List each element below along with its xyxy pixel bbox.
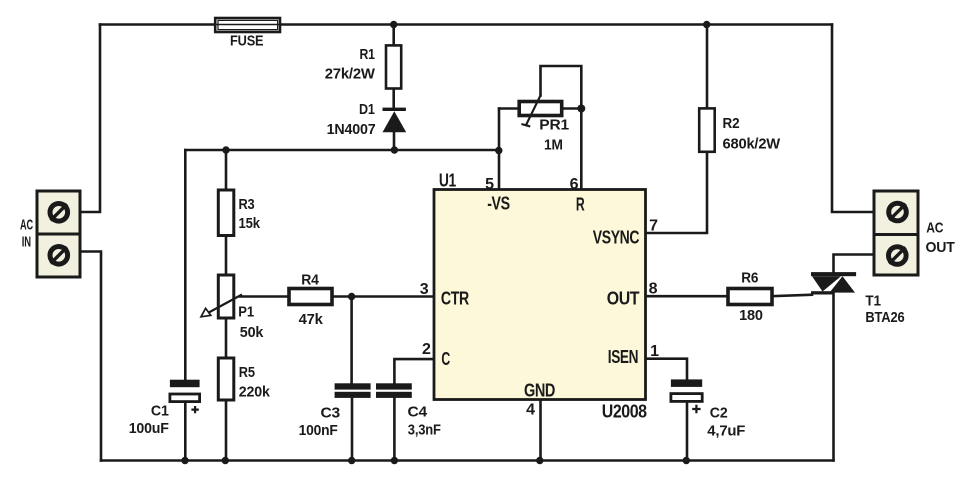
svg-text:C4: C4	[408, 404, 428, 421]
svg-text:4,7uF: 4,7uF	[707, 422, 745, 439]
resistor R1	[386, 45, 401, 88]
wire IC pin 6	[580, 109, 583, 190]
svg-text:4: 4	[526, 402, 535, 419]
svg-text:U1: U1	[439, 171, 456, 191]
resistor R4	[289, 289, 332, 305]
wire C2 to bottom rail	[686, 402, 689, 461]
svg-text:7: 7	[649, 218, 658, 235]
svg-text:GND: GND	[524, 380, 555, 400]
wire R1 to D1	[392, 89, 395, 109]
wire top rail to AC OUT top terminal	[832, 25, 874, 213]
resistor R5	[218, 358, 234, 400]
svg-text:C3: C3	[321, 405, 341, 422]
wire top rail	[100, 23, 832, 26]
svg-text:D1: D1	[359, 101, 375, 118]
svg-text:OUT: OUT	[926, 239, 955, 256]
terminal block AC OUT	[874, 191, 918, 275]
svg-text:5: 5	[485, 176, 494, 193]
wire mid bus	[185, 149, 499, 152]
resistor R3	[218, 190, 234, 236]
junction bottom rail / C1	[181, 457, 188, 464]
wire R2 to IC pin 7	[646, 152, 708, 233]
wire C4 to bottom rail	[393, 398, 396, 461]
svg-text:-VS: -VS	[487, 194, 510, 214]
svg-text:T1: T1	[865, 292, 880, 309]
capacitor C4	[376, 383, 412, 398]
svg-text:IN: IN	[22, 234, 31, 251]
wire IC pin 1 to C2	[646, 359, 688, 380]
svg-text:1: 1	[650, 343, 659, 360]
wire IC pin 8 to R6	[646, 295, 729, 298]
wire PR1 right terminal to pin 6 node	[563, 107, 581, 110]
svg-text:100uF: 100uF	[129, 420, 169, 437]
wire C1 to bottom rail	[184, 402, 187, 461]
junction mid bus / R3	[222, 146, 229, 153]
svg-text:C: C	[441, 349, 450, 369]
capacitor C2 (polarized)	[671, 379, 702, 413]
capacitor C3	[335, 383, 371, 398]
junction mid bus / D1	[391, 146, 398, 153]
node AC OUT label	[926, 220, 955, 256]
wire AC IN top terminal to top rail	[80, 25, 100, 213]
wire mid bus to C1	[184, 150, 187, 380]
wire P1 wiper to R4	[240, 295, 289, 298]
wire node to C3	[350, 297, 353, 384]
svg-text:R6: R6	[741, 269, 758, 286]
svg-text:180: 180	[739, 307, 763, 324]
junction bottom rail / R5	[222, 457, 229, 464]
wire R5 to bottom rail	[225, 400, 228, 461]
junction bottom rail / C3	[348, 457, 355, 464]
wire IC pin 5 to mid bus	[498, 109, 501, 190]
junction R4 / C3 / pin 3	[348, 293, 355, 300]
wire IC pin 4 GND to bottom rail	[539, 400, 542, 461]
resistor R2	[699, 108, 715, 151]
svg-text:CTR: CTR	[441, 289, 469, 309]
svg-text:PR1: PR1	[539, 116, 569, 133]
wire PR1 left terminal	[499, 107, 519, 110]
svg-text:C1: C1	[151, 403, 169, 420]
svg-text:220k: 220k	[239, 384, 271, 401]
junction mid bus / pin 5	[495, 147, 502, 154]
svg-text:BTA26: BTA26	[865, 309, 904, 326]
svg-text:R: R	[576, 195, 585, 215]
wire D1 to mid bus	[393, 132, 396, 150]
svg-text:P1: P1	[238, 304, 254, 321]
svg-text:27k/2W: 27k/2W	[325, 66, 376, 83]
wire top rail to R1	[392, 25, 395, 46]
capacitor C1 (polarized)	[170, 380, 200, 414]
resistor R6	[728, 289, 772, 305]
svg-text:R1: R1	[360, 46, 375, 63]
svg-text:1N4007: 1N4007	[327, 121, 376, 138]
svg-text:15k: 15k	[239, 215, 261, 232]
wire mid bus to R3	[225, 150, 228, 190]
wire C3 to bottom rail	[351, 398, 354, 461]
svg-text:2: 2	[422, 341, 431, 358]
junction top rail / R2	[703, 21, 710, 28]
junction bottom rail / C2	[683, 457, 690, 464]
wire triac T1 to bottom rail	[832, 294, 835, 461]
wire IC pin 2 to C4	[394, 359, 434, 383]
junction bottom rail / GND pin 4	[536, 457, 543, 464]
wire bottom rail	[101, 459, 834, 462]
svg-text:680k/2W: 680k/2W	[723, 136, 782, 153]
junction bottom rail / C4	[391, 457, 398, 464]
svg-text:R3: R3	[239, 196, 255, 213]
svg-text:R5: R5	[239, 364, 255, 381]
node AC IN label	[20, 217, 33, 251]
junction PR1 / pin 6	[577, 105, 585, 113]
svg-text:R2: R2	[723, 115, 740, 132]
wire AC OUT bottom terminal to triac T1	[834, 255, 875, 273]
wire AC IN bottom terminal to bottom rail	[80, 252, 101, 461]
wire R3 to P1	[225, 236, 228, 276]
svg-text:ISEN: ISEN	[608, 347, 638, 367]
wire R6 to triac T1 gate	[772, 295, 812, 297]
svg-text:AC: AC	[926, 220, 943, 237]
wire R4 to IC pin 3	[332, 295, 434, 298]
svg-text:C2: C2	[710, 405, 728, 422]
svg-text:6: 6	[570, 176, 579, 193]
wire top rail to R2	[706, 25, 709, 109]
svg-text:47k: 47k	[299, 311, 324, 328]
potentiometer PR1	[519, 95, 562, 126]
svg-text:1M: 1M	[544, 137, 563, 154]
svg-text:50k: 50k	[240, 324, 264, 341]
svg-text:3: 3	[420, 281, 429, 298]
svg-text:U2008: U2008	[602, 402, 647, 422]
svg-text:VSYNC: VSYNC	[593, 227, 640, 247]
wire P1 to R5	[225, 318, 228, 358]
svg-text:R4: R4	[301, 272, 319, 289]
svg-text:100nF: 100nF	[299, 422, 338, 439]
terminal block AC IN	[37, 191, 80, 277]
fuse FUSE	[215, 18, 280, 32]
potentiometer P1	[201, 275, 242, 318]
svg-text:3,3nF: 3,3nF	[408, 421, 441, 438]
svg-text:8: 8	[649, 281, 658, 298]
svg-text:OUT: OUT	[607, 288, 640, 308]
op-amp U1 (triac controller IC body)	[434, 190, 646, 400]
diode D1	[383, 108, 407, 133]
junction top rail / R1	[390, 21, 397, 28]
svg-text:FUSE: FUSE	[230, 33, 264, 50]
svg-text:AC: AC	[20, 217, 33, 234]
wire PR1 wiper bracket	[541, 66, 582, 109]
transistor T1 (triac)	[811, 272, 856, 294]
